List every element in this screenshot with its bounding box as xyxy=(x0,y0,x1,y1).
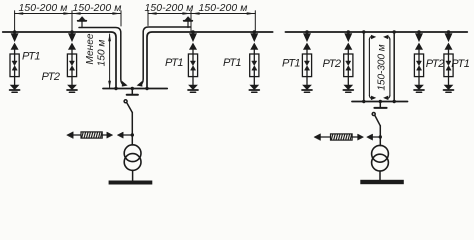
arrester PT1 #1 (left schematic) xyxy=(10,30,20,92)
junction node left cable top xyxy=(362,30,365,33)
earth symbol on right cable sheath xyxy=(184,17,193,28)
substation earth busbar (right schematic) xyxy=(352,101,408,103)
svg-text:РТ2: РТ2 xyxy=(41,71,59,83)
ground stub below busbar (right) xyxy=(379,102,381,108)
svg-text:150-200 м: 150-200 м xyxy=(144,3,193,14)
transformer winding 1 (left) xyxy=(124,145,141,162)
wire: switch to transformer xyxy=(131,113,133,145)
ground stub below busbar xyxy=(131,89,133,94)
arrester PT2 #2 (left schematic) xyxy=(67,30,77,92)
extension line at arrester 3 xyxy=(190,11,192,31)
extension line at arrester 4 xyxy=(254,11,256,31)
junction node at horizontal arrester tap xyxy=(131,133,134,136)
arrester PT1 #1 (right schematic) xyxy=(302,30,312,92)
horizontal tubular arrester at transformer (left) xyxy=(67,132,133,139)
horizontal tubular arrester at transformer (right) xyxy=(314,134,380,141)
dimension line segment 3 (150-200 m, right cable end to PT1) xyxy=(148,12,191,15)
arrester PT2 #2 (right schematic) xyxy=(343,30,353,92)
ground bar below busbar (right) xyxy=(374,107,386,109)
extension line at arrester 1 xyxy=(14,11,16,31)
extension line at arrester 2 xyxy=(71,11,73,31)
vertical dimension line Menee 150 m xyxy=(108,34,111,88)
wire: right schematic overhead feeder line xyxy=(285,31,467,33)
ground bar below busbar xyxy=(127,94,138,96)
arrester PT2 #3 (right schematic) xyxy=(414,30,424,92)
junction node right cable bottom xyxy=(393,100,396,103)
arrester PT1 #4 (left schematic right approach) xyxy=(249,30,259,92)
junction node busbar centre (right) xyxy=(379,100,382,103)
wire: right feeder of left schematic bending into cable core xyxy=(147,32,273,89)
svg-text:РТ2: РТ2 xyxy=(322,58,340,70)
disconnect switch hinge (right) xyxy=(372,113,375,116)
junction node at horizontal arrester tap (right) xyxy=(379,135,382,138)
junction node busbar centre xyxy=(131,87,134,90)
svg-text:150-200 м: 150-200 м xyxy=(198,3,247,14)
ground electrode bar (left) xyxy=(109,181,153,185)
extension line at right cable corner xyxy=(147,11,149,26)
transformer winding 1 (right) xyxy=(372,145,389,162)
svg-text:150-200 м: 150-200 м xyxy=(72,3,121,14)
disconnect switch blade (right) xyxy=(375,116,380,126)
svg-text:РТ1: РТ1 xyxy=(22,51,40,63)
wire: left cable sheath with earthed end xyxy=(79,28,125,86)
vertical dimension line 150-300 m (right, with hooked arrow ends) xyxy=(383,35,390,100)
arrowhead of right cable sheath hook xyxy=(137,81,143,87)
arrester PT1 #4 (right schematic) xyxy=(444,30,454,92)
earth symbol on left cable sheath xyxy=(78,17,87,28)
junction node right cable to busbar xyxy=(145,87,148,90)
extension line at left cable corner xyxy=(120,11,122,26)
svg-text:150-200 м: 150-200 м xyxy=(18,3,67,14)
arrowhead of left cable sheath hook xyxy=(122,81,128,87)
disconnect switch hinge xyxy=(124,100,127,103)
wire: left overhead feeder line bending into cable core xyxy=(3,32,116,89)
dimension line segment 4 (150-200 m, PT1 to PT1) xyxy=(191,12,255,15)
svg-text:150-300 м: 150-300 м xyxy=(377,44,388,90)
svg-text:РТ1: РТ1 xyxy=(223,57,241,69)
wire: right cable sheath with earthed end xyxy=(139,27,190,85)
transformer winding 2 (right) xyxy=(372,154,389,171)
wire: left cable drop (right schematic) xyxy=(363,32,365,102)
svg-text:РТ1: РТ1 xyxy=(165,57,183,69)
svg-text:РТ1: РТ1 xyxy=(451,58,469,70)
substation earth busbar (left schematic) xyxy=(103,88,167,90)
disconnect switch blade xyxy=(127,103,133,113)
transformer winding 2 (left) xyxy=(124,154,141,171)
dimension line segment 2 (150-200 m, PT2 to cable end) xyxy=(72,12,121,15)
wire: transformer to ground xyxy=(132,170,134,180)
svg-text:РТ1: РТ1 xyxy=(282,58,300,70)
arrester PT1 #3 (left schematic right approach) xyxy=(188,30,198,92)
junction node left cable bottom xyxy=(362,100,365,103)
junction node left cable to busbar xyxy=(114,87,117,90)
dimension line segment 1 (150-200 m, between PT1 and PT2) xyxy=(15,12,72,15)
svg-text:Менее: Менее xyxy=(85,33,96,64)
junction node right cable top xyxy=(393,30,396,33)
svg-text:РТ2: РТ2 xyxy=(426,58,444,70)
vertical dimension line 150-300 m (left, with hooked arrow ends) xyxy=(369,35,376,100)
wire: transformer to ground (right) xyxy=(379,171,381,180)
wire: switch to transformer (right) xyxy=(379,126,381,146)
wire: right cable drop (right schematic) xyxy=(393,32,395,102)
ground electrode bar (right) xyxy=(360,180,404,184)
svg-text:150 м: 150 м xyxy=(96,40,107,67)
